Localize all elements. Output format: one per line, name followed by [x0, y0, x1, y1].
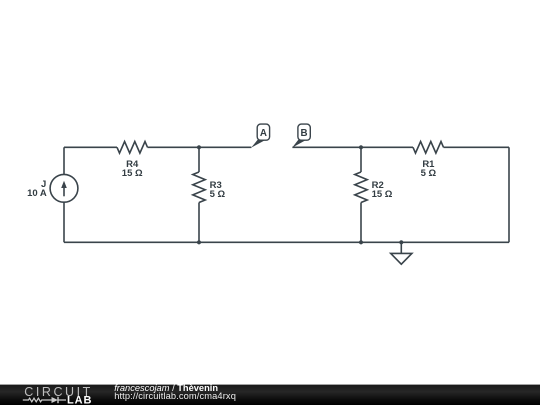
- footer bar: [0, 385, 540, 405]
- svg-text:15 Ω: 15 Ω: [122, 168, 143, 179]
- wire R2 bottom stub: [360, 203, 362, 243]
- svg-text:A: A: [260, 128, 267, 139]
- ground stem: [400, 242, 402, 253]
- node junction R2 bottom: [359, 240, 363, 244]
- flag A tail: [251, 140, 266, 148]
- resistor R3: [193, 172, 205, 203]
- node junction ground: [399, 240, 403, 244]
- wire left vertical upper: [63, 147, 65, 174]
- current source J circle: [50, 174, 78, 202]
- wire bottom horizontal: [64, 241, 509, 243]
- node junction R3 bottom: [197, 240, 201, 244]
- flag B box: [298, 124, 310, 140]
- CircuitLab logo squiggle wire: [23, 398, 66, 402]
- flag B tail: [292, 140, 306, 148]
- svg-text:5 Ω: 5 Ω: [421, 168, 437, 179]
- flag A box: [257, 124, 269, 140]
- wire top-left horizontal: [64, 146, 117, 148]
- svg-text:LAB: LAB: [67, 394, 92, 405]
- current source J arrowhead: [61, 181, 67, 188]
- ground triangle: [391, 253, 412, 264]
- svg-text:15 Ω: 15 Ω: [372, 189, 393, 200]
- wire R4 to node A terminal: [148, 146, 252, 148]
- wire left vertical lower: [63, 202, 65, 242]
- wire R3 top stub: [198, 147, 200, 172]
- node junction R3 top: [197, 145, 201, 149]
- current source J arrow shaft: [63, 187, 65, 197]
- resistor R4: [117, 142, 148, 154]
- svg-text:B: B: [301, 128, 308, 139]
- CircuitLab logo diode bar: [57, 397, 59, 403]
- svg-text:http://circuitlab.com/cma4rxq: http://circuitlab.com/cma4rxq: [114, 391, 236, 401]
- resistor R2: [355, 172, 367, 203]
- wire R2 top stub: [360, 147, 362, 172]
- svg-text:5 Ω: 5 Ω: [210, 189, 226, 200]
- wire B terminal to R1: [292, 146, 413, 148]
- svg-text:10 A: 10 A: [27, 188, 47, 199]
- wire R3 bottom stub: [198, 203, 200, 243]
- wire R1 to right corner: [444, 146, 510, 148]
- wire right vertical: [508, 147, 510, 242]
- resistor R1: [413, 142, 444, 154]
- node junction R2 top: [359, 145, 363, 149]
- CircuitLab logo diode triangle: [52, 397, 59, 403]
